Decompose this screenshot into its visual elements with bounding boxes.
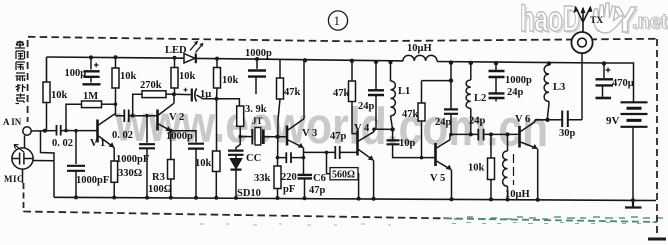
svg-text:10k: 10k: [51, 90, 68, 101]
svg-text:10k: 10k: [179, 71, 196, 82]
svg-text:.net: .net: [632, 11, 668, 33]
svg-text:470μ: 470μ: [612, 78, 634, 89]
svg-text:1000p: 1000p: [166, 131, 193, 142]
svg-text:V 3: V 3: [302, 128, 317, 139]
svg-text:SD10: SD10: [237, 188, 261, 199]
svg-text:LED: LED: [165, 45, 187, 56]
svg-text:9V: 9V: [606, 115, 620, 127]
svg-text:24p: 24p: [469, 116, 486, 127]
svg-text:30p: 30p: [559, 128, 576, 139]
svg-text:V 2: V 2: [169, 112, 184, 123]
svg-text:220: 220: [281, 172, 297, 183]
svg-text:TX: TX: [590, 16, 603, 26]
svg-text:1: 1: [334, 13, 341, 28]
svg-text:1000p: 1000p: [505, 75, 532, 86]
svg-text:haoD: haoD: [520, 0, 580, 39]
svg-text:33k: 33k: [254, 173, 271, 184]
svg-text:100Ω: 100Ω: [148, 184, 172, 195]
svg-text:A IN: A IN: [3, 117, 22, 127]
svg-text:L1: L1: [398, 86, 410, 97]
svg-text:0. 02: 0. 02: [112, 130, 133, 141]
svg-text:10p: 10p: [399, 138, 416, 149]
svg-text:1000pF: 1000pF: [116, 154, 149, 165]
svg-text:24p: 24p: [358, 101, 375, 112]
svg-text:L2: L2: [474, 93, 486, 104]
svg-text:270k: 270k: [140, 80, 162, 91]
svg-text:C6: C6: [313, 173, 326, 184]
svg-text:47k: 47k: [402, 109, 419, 120]
svg-text:1000pF: 1000pF: [76, 175, 109, 186]
svg-text:10k: 10k: [195, 158, 212, 169]
svg-text:10k: 10k: [468, 163, 485, 174]
svg-text:24p: 24p: [435, 117, 452, 128]
svg-text:L3: L3: [553, 82, 565, 93]
svg-text:47k: 47k: [284, 87, 301, 98]
svg-text:MIC: MIC: [4, 174, 24, 184]
svg-text:V 5: V 5: [430, 173, 445, 184]
svg-text:3. 9k: 3. 9k: [245, 104, 267, 115]
svg-text:V 4: V 4: [354, 123, 370, 134]
svg-text:1M: 1M: [83, 91, 98, 102]
svg-text:R3: R3: [152, 172, 165, 183]
svg-text:1000p: 1000p: [245, 48, 272, 59]
svg-text:0. 02: 0. 02: [52, 138, 73, 149]
svg-text:pF: pF: [283, 184, 295, 195]
svg-text:10μH: 10μH: [407, 43, 432, 54]
svg-text:10k: 10k: [120, 71, 137, 82]
svg-text:10k: 10k: [222, 75, 239, 86]
svg-text:1μ: 1μ: [200, 89, 211, 100]
svg-text:100μ: 100μ: [65, 68, 87, 79]
svg-text:JT: JT: [252, 116, 263, 126]
svg-text:47p: 47p: [309, 185, 326, 196]
svg-text:330Ω: 330Ω: [118, 168, 142, 179]
svg-text:V 1: V 1: [90, 138, 105, 149]
svg-text:10μH: 10μH: [505, 189, 530, 200]
svg-text:V 6: V 6: [515, 114, 530, 125]
svg-text:560Ω: 560Ω: [332, 170, 355, 181]
svg-text:47p: 47p: [330, 131, 347, 142]
svg-text:CC: CC: [246, 153, 261, 164]
svg-text:24p: 24p: [507, 87, 524, 98]
svg-text:47k: 47k: [333, 88, 350, 99]
